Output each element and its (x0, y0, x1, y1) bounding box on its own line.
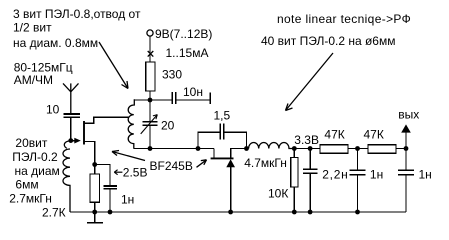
feedback cap 1,5 bridge left (198, 132, 220, 148)
wire source to cap 1n (95, 165, 110, 187)
tank coil 3 turns (128, 99, 134, 148)
node 2,2n junction (308, 146, 313, 151)
wire output to cap 1n out (405, 149, 407, 171)
svg-text:1/2 вит: 1/2 вит (13, 21, 52, 35)
svg-text:на диам. 0.8мм: на диам. 0.8мм (13, 36, 98, 50)
capacitor 1n out (398, 170, 414, 174)
gate node junction (68, 138, 73, 143)
ground junction 2.7K (92, 210, 97, 215)
wire 3.3V to filter (294, 148, 320, 150)
svg-text:330: 330 (162, 68, 182, 82)
tank bottom junction (148, 146, 153, 151)
capacitor 1,5 (220, 124, 224, 140)
JFET Q1 gate arrow (71, 138, 81, 144)
ground junction 1n mid (355, 210, 360, 215)
wire cap 2,2n ground (309, 173, 311, 212)
stub terminal (209, 93, 211, 105)
wire 47K to output (396, 148, 406, 150)
wire 10K to ground (293, 187, 295, 212)
source label (114, 170, 122, 175)
annotation arrow to Q1 (112, 151, 145, 161)
resistor 47K first (320, 145, 348, 153)
supply terminal 9V (147, 30, 153, 36)
svg-text:3.3В: 3.3В (294, 133, 319, 147)
annotation arrow to Q2 (197, 160, 207, 168)
svg-text:BF245В: BF245В (150, 159, 193, 173)
resistor 330 (146, 62, 155, 91)
wire between 47K (348, 148, 368, 150)
wire 3.3V to 10K (293, 149, 295, 158)
svg-text:2.7мкГн: 2.7мкГн (9, 192, 52, 206)
source node Q2 junction (244, 146, 249, 151)
svg-text:1,5: 1,5 (214, 108, 231, 122)
JFET Q2 channel (211, 157, 234, 159)
svg-text:АМ/ЧМ: АМ/ЧМ (14, 73, 53, 87)
node mid filter junction (355, 146, 360, 151)
ground junction 2,2n (308, 210, 313, 215)
svg-text:6мм: 6мм (15, 178, 38, 192)
JFET Q2 drain lead (213, 149, 215, 159)
wire cap 10n to stub (176, 99, 210, 101)
svg-text:10К: 10К (268, 187, 288, 201)
svg-text:40 вит ПЭЛ-0.2 на ø6мм: 40 вит ПЭЛ-0.2 на ø6мм (261, 34, 395, 48)
svg-text:2,2н: 2,2н (322, 168, 348, 182)
ground symbol (87, 212, 103, 223)
svg-text:вых: вых (398, 108, 419, 122)
capacitor 1n mid (350, 170, 366, 174)
drain node Q2 junction (196, 146, 201, 151)
variable capacitor 20 (142, 122, 157, 126)
svg-text:4.7мкГн: 4.7мкГн (244, 156, 287, 170)
JFET Q1 channel (83, 121, 85, 145)
input coil 20 turns (63, 141, 71, 212)
capacitor 10n (172, 92, 176, 104)
svg-text:1..15мА: 1..15мА (166, 46, 209, 60)
JFET Q2 gate arrow (226, 159, 235, 167)
capacitor 1n left (103, 186, 117, 189)
wire to cap 2,2n (309, 149, 311, 170)
svg-text:на диам: на диам (15, 164, 60, 178)
wire source to resistor (94, 165, 96, 175)
variable capacitor wire bottom (149, 126, 151, 149)
node A junction (148, 98, 153, 103)
variable capacitor arrow (141, 115, 158, 134)
JFET Q2 gate wire (230, 167, 232, 213)
annotation arrow to tank coil (99, 42, 128, 89)
antenna (63, 83, 79, 113)
svg-text:10: 10 (46, 103, 60, 117)
wire supply (149, 36, 151, 62)
svg-text:note linear tecniqe->РФ: note linear tecniqe->РФ (277, 12, 411, 26)
resistor 2.7K (90, 174, 99, 202)
output node junction (404, 146, 409, 151)
resistor 10K (291, 158, 298, 188)
svg-text:2.7К: 2.7К (42, 206, 66, 220)
tank bottom wire (134, 148, 215, 150)
wire cap 1n out ground (405, 175, 407, 212)
wire node A to cap 10n (150, 99, 172, 101)
wire cap 1n to ground (109, 189, 111, 212)
svg-text:47К: 47К (324, 127, 344, 141)
tap wire (84, 117, 129, 123)
wire cap 10 to gate node (70, 118, 72, 141)
wire resistor to node A (149, 91, 151, 100)
feedback cap bridge right (224, 132, 246, 148)
ground junction gate Q2 (228, 210, 233, 215)
svg-text:47К: 47К (364, 127, 384, 141)
svg-text:1н: 1н (370, 168, 383, 182)
svg-text:1н: 1н (419, 168, 432, 182)
wire node A to coil (134, 99, 150, 101)
ground junction 10K (292, 210, 297, 215)
output arrow (401, 124, 411, 148)
JFET Q2 source lead (231, 149, 247, 159)
svg-text:1н: 1н (121, 193, 134, 207)
choke 4.7uH (249, 142, 295, 148)
variable capacitor wire top (149, 100, 151, 121)
node 3.3V junction (292, 146, 297, 151)
JFET Q1 source lead (84, 142, 95, 165)
svg-text:9В(7..12В): 9В(7..12В) (155, 27, 212, 41)
ground junction 1n left (108, 210, 113, 215)
svg-text:2.5В: 2.5В (123, 165, 148, 179)
svg-text:ПЭЛ-0.2: ПЭЛ-0.2 (12, 150, 58, 164)
wire cap 1n mid ground (357, 175, 359, 212)
current break mark (148, 51, 154, 57)
wire resistor to ground (94, 202, 96, 212)
capacitor 10 (64, 114, 81, 117)
capacitor 2,2n (303, 169, 317, 173)
ground bus wire (70, 211, 406, 213)
annotation arrow to choke (286, 53, 334, 111)
wire to cap 1n mid (357, 149, 359, 171)
svg-text:20: 20 (161, 119, 175, 133)
source node junction (92, 162, 97, 167)
svg-text:10н: 10н (183, 85, 203, 99)
svg-text:3 вит ПЭЛ-0.8,отвод от: 3 вит ПЭЛ-0.8,отвод от (13, 7, 141, 21)
resistor 47K second (368, 145, 396, 153)
svg-text:20вит: 20вит (15, 136, 47, 150)
